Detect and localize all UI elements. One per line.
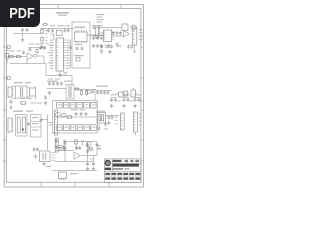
- capacitor C22: [48, 82, 51, 86]
- transistor Q1: [131, 25, 136, 30]
- ground G13b: [63, 145, 66, 149]
- ground G14: [97, 126, 100, 130]
- wire W5: [70, 40, 72, 68]
- rev row 1: [105, 173, 140, 175]
- capacitor C3: [47, 29, 50, 33]
- capacitor C5: [63, 29, 66, 33]
- resistor R8: [85, 89, 87, 95]
- label LBLW25: [49, 122, 52, 125]
- label LBL7b: [10, 44, 41, 52]
- title field top: [113, 160, 139, 162]
- box M1b: [76, 58, 80, 62]
- label LBL6: [139, 29, 144, 40]
- transformer T2: [66, 85, 74, 100]
- capacitor CX2: [36, 148, 39, 152]
- label LBL11c: [118, 101, 144, 102]
- capacitor C14e: [130, 45, 133, 49]
- capacitor C6: [67, 29, 70, 33]
- connector J2: [8, 87, 14, 97]
- buffer circle U5b: [34, 54, 37, 57]
- right border tick 2: [141, 77, 143, 79]
- label LBL7c: [40, 43, 49, 44]
- label LBL2c: [64, 72, 68, 75]
- capacitor C16: [116, 31, 119, 36]
- capacitor C9: [93, 26, 96, 30]
- ground G10: [122, 104, 125, 108]
- logo: [105, 160, 112, 170]
- pin labels U1 left: [50, 40, 53, 69]
- wire W28: [106, 115, 120, 117]
- resistor R2: [41, 36, 43, 42]
- label box M5: [58, 146, 64, 150]
- wire W16: [46, 64, 72, 86]
- title block divider v1: [111, 159, 113, 172]
- wire W25: [47, 115, 49, 151]
- label LBLM3: [71, 109, 86, 110]
- resistor R5: [15, 55, 21, 57]
- label LBL15: [90, 149, 102, 160]
- wire W19: [47, 88, 66, 90]
- wire W9: [100, 27, 122, 29]
- connector J7: [59, 172, 67, 180]
- capacitor C39: [27, 122, 30, 126]
- label LBL9: [47, 81, 72, 82]
- connector J4: [54, 110, 57, 135]
- wire W30: [55, 149, 74, 151]
- wire W10: [112, 35, 124, 37]
- wire WC33: [124, 97, 130, 99]
- wire W7: [92, 25, 103, 27]
- ferrite bead FB1: [56, 30, 62, 35]
- capacitor C12: [96, 36, 99, 41]
- wire W12b: [26, 60, 28, 64]
- relay K2: [97, 113, 106, 124]
- capacitor C53b: [78, 146, 81, 150]
- wire W1a: [22, 34, 24, 39]
- label LBL3: [74, 27, 85, 29]
- connector J3: [8, 118, 14, 132]
- net flag N2: [7, 77, 11, 80]
- label LBL2b: [50, 25, 70, 26]
- op-amp U4: [124, 31, 130, 38]
- capacitor C37: [10, 100, 13, 104]
- ground G6b: [108, 50, 111, 54]
- capacitor C20: [39, 46, 42, 50]
- capacitor C54: [86, 143, 89, 147]
- bottom border tick 2: [74, 182, 76, 187]
- PDF badge: [0, 0, 40, 27]
- right border tick 4: [141, 139, 143, 141]
- pad row M3: [57, 125, 96, 131]
- wire W27: [76, 146, 89, 151]
- capacitor C48: [85, 112, 88, 116]
- transistor Q4: [89, 147, 93, 151]
- potentiometer VR0: [6, 53, 9, 63]
- capacitor C27: [96, 91, 99, 95]
- ground G8: [48, 91, 51, 95]
- capacitor C56: [96, 143, 99, 147]
- module M2: [31, 115, 43, 138]
- transistor Q3: [86, 142, 91, 147]
- inductor FL2: [131, 88, 138, 98]
- capacitor C36: [138, 98, 141, 102]
- label LBLC22: [48, 79, 60, 80]
- wire W8: [90, 35, 104, 37]
- label LBL1: [20, 26, 30, 27]
- wire W17: [12, 86, 36, 97]
- bottom border tick 1: [40, 182, 42, 187]
- capacitor C47: [80, 112, 83, 116]
- ground G15: [42, 162, 45, 166]
- transistor Q2: [56, 112, 61, 117]
- ground G1: [21, 38, 24, 42]
- label LBLJ6: [139, 114, 142, 126]
- label LBL7: [6, 50, 10, 51]
- capacitor C24: [56, 82, 59, 86]
- title block divider h2: [105, 175, 141, 177]
- wire WC35: [135, 97, 141, 99]
- capacitor C55: [86, 150, 89, 154]
- ground G9: [110, 104, 113, 108]
- capacitor C51: [107, 116, 110, 120]
- wire W2: [40, 28, 74, 30]
- capacitor C14c: [110, 45, 113, 49]
- label LBLQ4: [98, 145, 102, 148]
- capacitor C11: [92, 36, 95, 41]
- capacitor C53a: [75, 146, 78, 150]
- wire W31: [81, 155, 97, 157]
- capacitor C38: [44, 96, 47, 100]
- label LBL8: [14, 82, 31, 83]
- label LBL10: [96, 86, 108, 87]
- crystal Y1: [43, 153, 46, 160]
- cell row top M3: [57, 103, 97, 109]
- wire W24: [41, 119, 48, 121]
- capacitor C21: [43, 46, 46, 50]
- transformer T3: [16, 115, 28, 137]
- capacitor C14b: [107, 45, 110, 49]
- box M4: [40, 151, 51, 162]
- wire W29: [135, 132, 137, 135]
- left border tick 5: [3, 160, 7, 162]
- wire W13: [37, 55, 44, 57]
- left border tick 1: [3, 46, 7, 48]
- wire Wv2: [96, 142, 98, 156]
- capacitor C17: [119, 31, 122, 36]
- connector J6: [134, 112, 138, 132]
- capacitor C10: [98, 26, 101, 30]
- title block divider h3: [112, 162, 141, 164]
- top border tick 1: [57, 5, 59, 9]
- connector J0: [96, 27, 100, 38]
- resistor R4: [8, 55, 14, 57]
- capacitor C52: [64, 142, 67, 146]
- pot VR1: [55, 138, 58, 152]
- ground G11: [133, 104, 136, 108]
- label LBL11b: [20, 98, 32, 99]
- resistor R11: [75, 139, 78, 145]
- ground G15a: [34, 154, 37, 158]
- wire W28b: [98, 123, 100, 127]
- capacitor C31: [110, 98, 113, 102]
- right border tick 3: [141, 109, 143, 111]
- title block divider h1: [105, 171, 141, 173]
- resistor R3: [42, 24, 48, 26]
- label LBL12: [13, 111, 33, 112]
- capacitor C15: [112, 31, 115, 36]
- label LBL13: [96, 111, 105, 112]
- left border tick 3: [3, 109, 7, 111]
- label LBL4: [74, 55, 84, 56]
- bottom border tick 3: [108, 182, 110, 187]
- label LBL11: [111, 94, 141, 95]
- wire W18: [12, 96, 36, 99]
- wire W6: [87, 34, 103, 36]
- capacitor C29: [103, 91, 106, 95]
- capacitor C35: [134, 98, 137, 102]
- label LBL4b: [118, 46, 122, 47]
- capacitor CX1: [33, 148, 36, 152]
- varistor RV1: [62, 114, 67, 117]
- inductor FL1: [117, 91, 130, 97]
- capacitor C34: [127, 98, 130, 102]
- capacitor C4: [51, 29, 54, 33]
- label LBLM1a: [75, 44, 83, 45]
- label LBLM4b: [46, 166, 51, 167]
- wire W23: [31, 102, 43, 104]
- wire W33: [64, 150, 66, 161]
- label LBL2: [56, 12, 69, 16]
- capacitor C50: [104, 123, 107, 127]
- wire W9b: [99, 32, 104, 34]
- IC U3: [104, 30, 114, 42]
- capacitor C46: [75, 112, 78, 116]
- capacitor C49: [55, 139, 58, 143]
- rev row 2: [105, 177, 140, 179]
- ground G18: [92, 167, 95, 171]
- wire W35: [52, 170, 97, 172]
- ground G12: [9, 105, 12, 109]
- label LBLM4: [52, 152, 56, 161]
- module box M1: [72, 22, 90, 68]
- transformer T1: [16, 86, 28, 98]
- op-amp U6: [74, 152, 80, 159]
- module box M3: [53, 101, 98, 134]
- capacitor C32: [114, 98, 117, 102]
- ground G5: [100, 44, 103, 48]
- capacitor C2: [26, 28, 29, 32]
- label LBL5: [97, 14, 105, 23]
- capacitor C23: [52, 82, 55, 86]
- ground G13: [55, 145, 58, 149]
- ground G1b: [40, 45, 43, 49]
- left border tick 4: [3, 139, 7, 141]
- pin labels U1 right: [66, 40, 69, 69]
- resistor R9: [20, 102, 27, 104]
- rectifier B1: [30, 88, 36, 96]
- IC U1: [48, 34, 66, 71]
- antenna AN1: [81, 140, 84, 146]
- label LBL5b: [105, 45, 111, 48]
- capacitor C25: [60, 82, 63, 86]
- ground G6: [100, 49, 103, 53]
- wire W4: [59, 71, 61, 73]
- wire W22: [96, 90, 112, 92]
- capacitor C59: [92, 162, 95, 166]
- connector J1: [133, 27, 137, 45]
- capacitor C19: [29, 48, 32, 52]
- wire W14: [29, 47, 47, 49]
- top border tick 2: [120, 5, 122, 9]
- ground G4: [96, 44, 99, 48]
- relay box K1: [122, 24, 128, 31]
- transistor Q5: [87, 90, 91, 94]
- wire input bus: [13, 33, 42, 35]
- title block frame: [105, 159, 141, 182]
- wire W32: [55, 161, 94, 163]
- ground G7: [115, 42, 118, 46]
- wire W32b: [88, 156, 94, 162]
- wire W12: [7, 56, 27, 58]
- resistor R10: [66, 116, 73, 118]
- capacitor C26: [91, 90, 94, 94]
- capacitor C30: [107, 91, 110, 95]
- ground G16: [63, 147, 66, 151]
- label LBL1b: [45, 30, 48, 41]
- ground G12b: [44, 101, 47, 105]
- net flag N1: [7, 46, 11, 49]
- capacitor C18: [22, 51, 25, 55]
- label LBL14: [70, 173, 78, 174]
- resistor R1: [41, 28, 43, 34]
- ground G3: [92, 44, 95, 48]
- wire Wv1: [87, 142, 89, 156]
- capacitor C51b: [111, 116, 114, 120]
- wire WC31: [111, 97, 117, 99]
- capacitor C13: [100, 36, 103, 41]
- sheet inner border: [7, 9, 141, 183]
- capacitor C14d: [127, 45, 130, 49]
- resistor R6: [36, 48, 38, 54]
- label LBLJ5: [115, 117, 118, 125]
- left border tick 2: [3, 77, 7, 79]
- capacitor C58: [86, 162, 89, 166]
- resistor R7: [80, 89, 82, 95]
- sheet outer border: [4, 5, 143, 188]
- title text bar: [113, 164, 139, 167]
- right border tick 5: [141, 160, 143, 162]
- IC U2: [75, 30, 88, 44]
- label LBLK2b: [104, 129, 109, 130]
- capacitor C8: [81, 47, 84, 51]
- wire Wtop: [65, 141, 97, 143]
- wire W15: [10, 56, 46, 64]
- title col dividers: [128, 159, 137, 164]
- wire W20: [74, 88, 96, 91]
- capacitor C28: [100, 91, 103, 95]
- op-amp U5: [27, 53, 33, 60]
- right border tick 1: [141, 46, 143, 48]
- ground G2: [58, 73, 61, 77]
- capacitor C6b: [69, 46, 72, 50]
- wire W11: [133, 45, 136, 52]
- capacitor C33: [123, 98, 126, 102]
- capacitor C14: [100, 45, 103, 49]
- wire W26: [54, 116, 96, 118]
- capacitor C1: [21, 28, 24, 32]
- ground G14b: [107, 121, 110, 125]
- wire W21: [94, 90, 96, 101]
- wire W1: [41, 43, 43, 46]
- capacitor C49b: [63, 140, 66, 144]
- capacitor C7: [76, 47, 79, 51]
- diode D2: [74, 88, 80, 90]
- subtitle field: [113, 168, 130, 170]
- connector J5: [121, 113, 125, 130]
- ground G17: [86, 167, 89, 171]
